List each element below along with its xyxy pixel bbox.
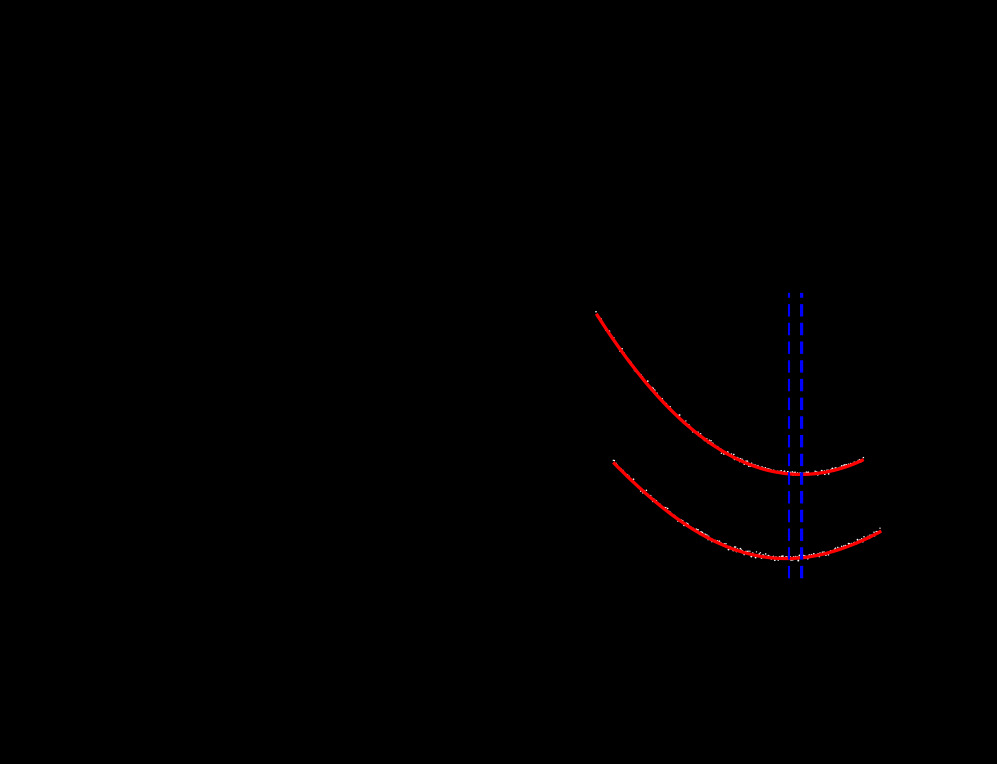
fitted curve (upper, red)	[597, 315, 862, 474]
vertical dashed marker line (right, thick)	[800, 293, 803, 578]
scatter data points (lower energy curve)	[613, 460, 882, 562]
fitted curve (lower, red)	[614, 464, 879, 559]
vertical dashed marker line (left, thin)	[788, 293, 790, 578]
scatter data points (upper energy curve)	[595, 311, 864, 476]
